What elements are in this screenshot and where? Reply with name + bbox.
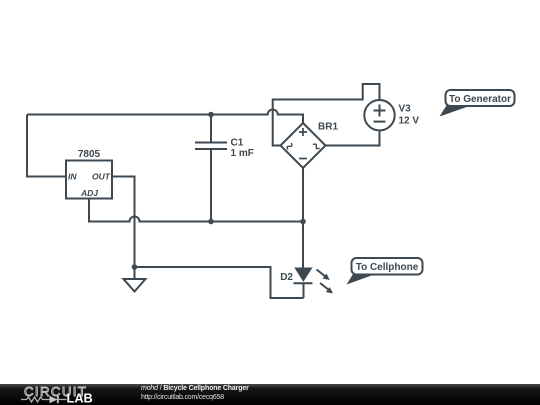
svg-text:D2: D2 [280, 272, 293, 283]
svg-text:LAB: LAB [67, 390, 93, 405]
wire: V3 minus back to BR1 AC right terminal [326, 131, 380, 146]
node: junction dot V+ / C1 top [208, 112, 214, 118]
node: junction dot ADJ / BR1 minus [300, 219, 306, 225]
callout: To Generator [440, 90, 515, 117]
callout: To Cellphone [347, 258, 423, 285]
node: junction dot ground [132, 264, 138, 270]
wire: ADJ net horizontal with hop over OUT wire [89, 199, 303, 222]
wire: ground net horizontal to D2 cathode [135, 267, 304, 298]
logo wire + resistor [21, 397, 50, 402]
wire: V+ net top horizontal with hop, from left corner to BR1 top [27, 110, 303, 123]
svg-text:C1: C1 [231, 138, 244, 149]
svg-text:To Cellphone: To Cellphone [356, 262, 419, 273]
LED D2 [280, 268, 333, 298]
op-amp: none. voltage regulator U1 7805 [66, 149, 112, 199]
svg-text:OUT: OUT [92, 172, 111, 182]
svg-text:1 mF: 1 mF [231, 148, 254, 159]
svg-text:7805: 7805 [78, 149, 101, 160]
footer title [141, 384, 249, 394]
wire: left vertical drop to regulator IN [27, 115, 66, 177]
svg-text:To Generator: To Generator [449, 94, 511, 105]
svg-text:12 V: 12 V [399, 116, 420, 127]
footer url [141, 393, 224, 403]
svg-text:IN: IN [68, 172, 77, 182]
bridge rectifier BR1 [281, 122, 339, 169]
svg-text:ADJ: ADJ [80, 188, 98, 198]
wire: BR1 AC left terminal up and across to V3 plus [273, 84, 380, 146]
capacitor C1 [195, 115, 254, 222]
ground [124, 267, 146, 292]
node: junction dot ADJ / C1 bottom [208, 219, 214, 225]
wire: regulator OUT to ground node vertical [112, 177, 135, 268]
svg-text:BR1: BR1 [318, 122, 338, 133]
wire: BR1 minus terminal down to D2 anode [302, 169, 304, 268]
voltage source V3 12V [364, 100, 419, 130]
logo diode [50, 396, 58, 403]
svg-text:V3: V3 [399, 104, 412, 115]
CircuitLab logo [0, 384, 135, 405]
footer bar [0, 384, 540, 405]
